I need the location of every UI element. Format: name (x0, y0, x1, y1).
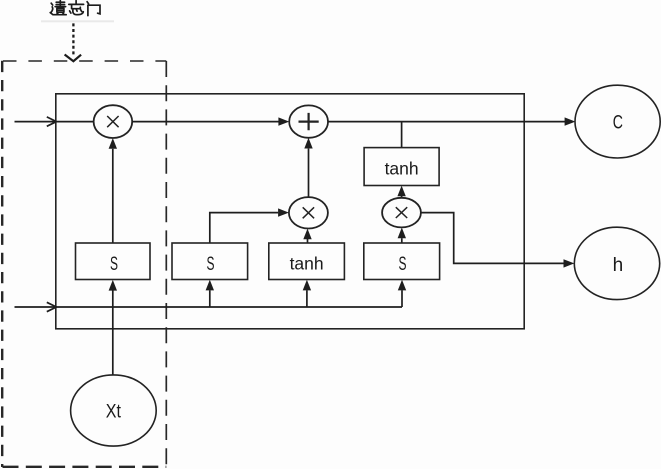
svg-text:S: S (399, 254, 407, 275)
wire from S1 top up into multiplier A (112, 149, 114, 243)
wire from Xt up into S1 bottom (112, 290, 114, 375)
dashed forget-gate region box : bottom edge (3, 466, 167, 468)
arrowhead into S3 bottom (398, 280, 406, 291)
svg-text:C: C (613, 112, 623, 133)
svg-text:S: S (207, 254, 215, 275)
wire input line 1 (15, 121, 94, 123)
svg-text:S: S (110, 254, 118, 275)
ghost artifact under label (41, 20, 114, 22)
adder circle (+) (289, 105, 328, 137)
svg-text:tanh: tanh (290, 254, 324, 274)
dotted arrow from label to dashed box (65, 23, 82, 61)
sigmoid box S1 (76, 243, 151, 280)
branch wire up into S2 bottom (209, 290, 211, 307)
multiplier circle A (forget gate product) (94, 105, 133, 138)
LSTM cell outer box (56, 94, 524, 329)
svg-text:tanh: tanh (385, 158, 419, 178)
sigmoid box S2 (172, 243, 248, 280)
multiplier circle B (input gate product) (289, 197, 328, 228)
wire from multiplier B up into adder (308, 149, 310, 198)
wire from lower tanh top up into multiplier B (307, 239, 309, 243)
dashed forget-gate region box : left edge (1, 61, 3, 467)
dashed forget-gate region box : right edge (165, 61, 167, 467)
arrowhead into C (565, 117, 576, 125)
h output ellipse (574, 227, 659, 299)
sigmoid box S3 (364, 243, 440, 280)
char 遗 (51, 3, 53, 5)
char 忘 (75, 1, 77, 4)
svg-text:h: h (613, 255, 624, 276)
label 遗忘门 (forget gate) (50, 1, 100, 16)
dashed forget-gate region box : top edge (3, 60, 166, 62)
branch wire up into lower tanh bottom (306, 290, 308, 307)
wire branch down to upper tanh (401, 122, 403, 148)
upper tanh box (364, 148, 439, 186)
wire from adder to C output (328, 121, 565, 123)
char 门 (87, 2, 89, 4)
svg-text:Xt: Xt (106, 402, 122, 423)
wire input line 2 (15, 290, 403, 307)
wire from multiplier A to adder (132, 121, 278, 123)
Xt input ellipse (71, 375, 157, 446)
arrowhead chevron at cell edge (input 1) (47, 117, 57, 126)
arrowhead into adder (278, 117, 289, 125)
elbow wire from S2 top to multiplier B (210, 213, 278, 243)
multiplier circle C (output gate product) (382, 198, 421, 228)
arrow from multiplier C up into upper tanh (401, 196, 403, 198)
C output ellipse (575, 85, 660, 158)
arrowhead chevron at cell edge (input 2) (47, 302, 57, 311)
lower tanh box (269, 243, 345, 280)
wire from S3 top up into multiplier C (401, 238, 403, 243)
wire from multiplier C right, down and to h output (421, 213, 564, 264)
